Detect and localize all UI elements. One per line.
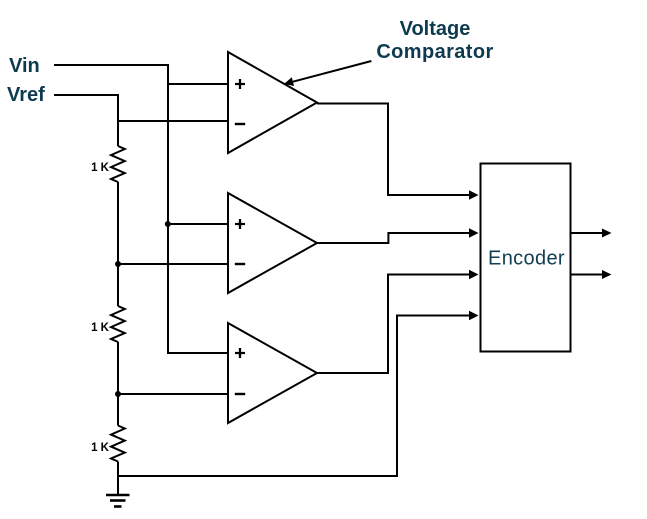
- svg-text:1 K: 1 K: [91, 322, 110, 334]
- svg-text:Voltage: Voltage: [400, 18, 471, 40]
- svg-text:1 K: 1 K: [91, 162, 110, 174]
- svg-text:Encoder: Encoder: [488, 248, 565, 270]
- svg-text:Vref: Vref: [7, 84, 45, 106]
- svg-text:1 K: 1 K: [91, 442, 110, 454]
- svg-text:Vin: Vin: [9, 55, 40, 77]
- svg-text:Comparator: Comparator: [376, 41, 493, 63]
